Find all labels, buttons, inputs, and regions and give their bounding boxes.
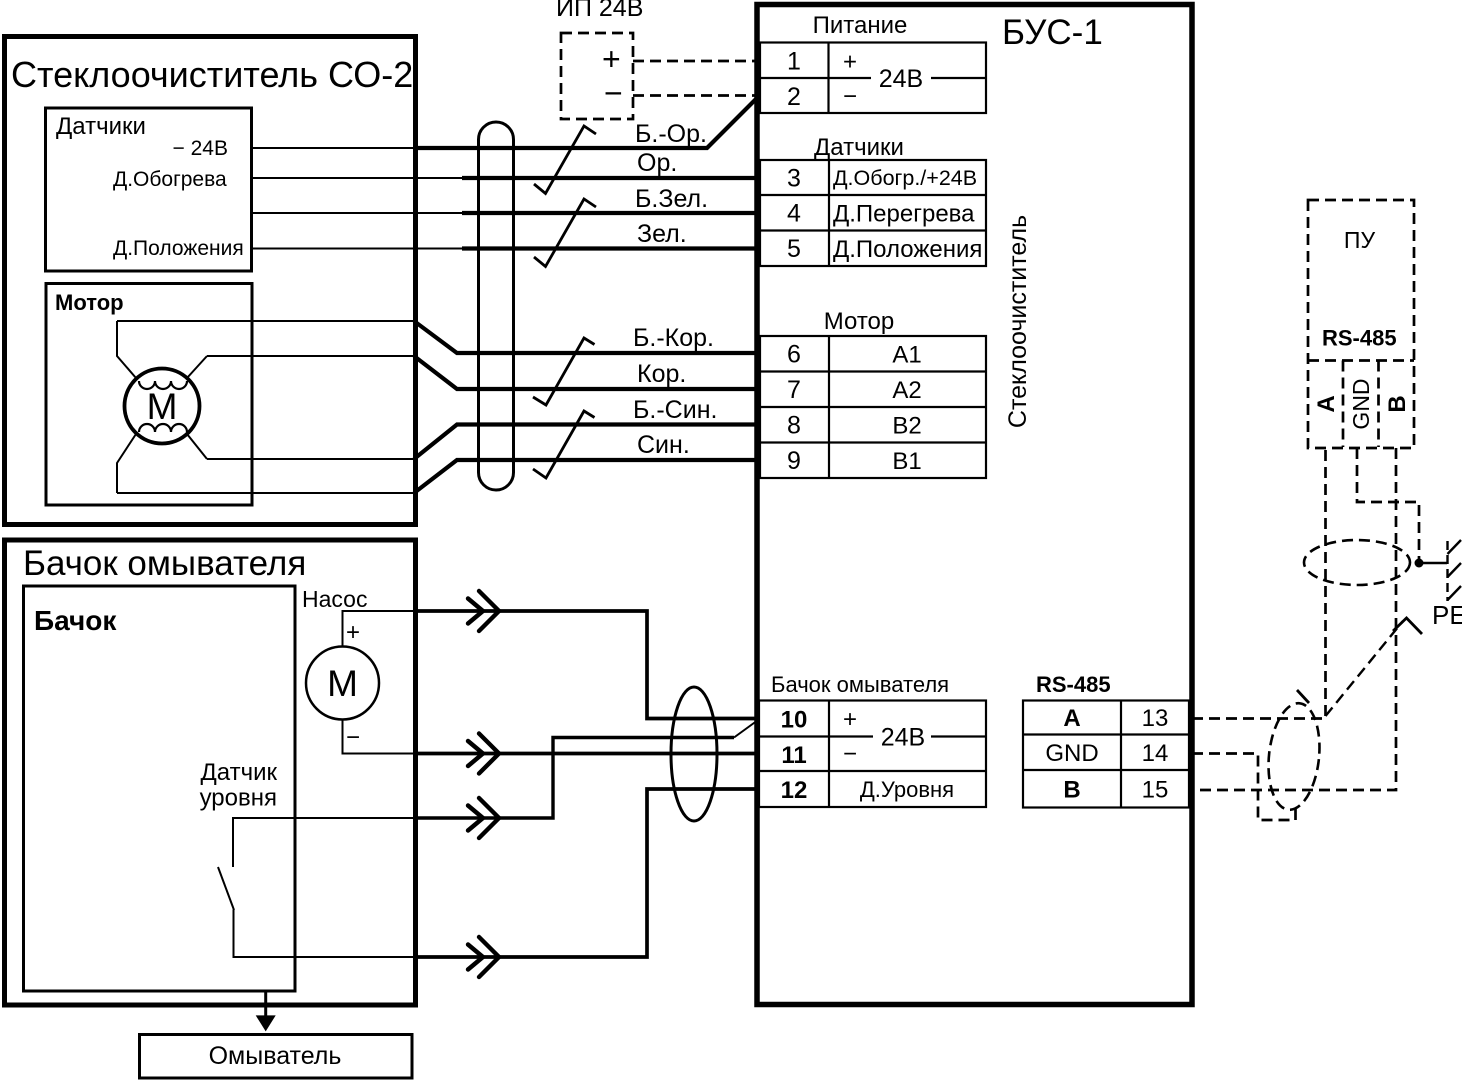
- wire A2 motor inside: [207, 355, 415, 357]
- svg-text:RS-485: RS-485: [1036, 672, 1111, 697]
- wire sensor Д.Положения inside: [252, 248, 463, 250]
- svg-text:Мотор: Мотор: [824, 308, 895, 335]
- svg-text:+: +: [602, 41, 621, 77]
- svg-text:ПУ: ПУ: [1344, 227, 1376, 253]
- svg-text:+: +: [843, 49, 857, 76]
- wire B2 motor inside: [207, 458, 415, 460]
- box Бачок омывателя: [5, 540, 416, 1005]
- svg-text:7: 7: [787, 376, 801, 404]
- svg-text:Д.Обогр./+24В: Д.Обогр./+24В: [833, 166, 977, 190]
- connector chevrons sensor bottom: [468, 945, 483, 970]
- svg-text:В: В: [1384, 395, 1411, 412]
- svg-text:В1: В1: [892, 448, 921, 475]
- RS-485 cable shield ellipse: [1304, 540, 1410, 585]
- svg-text:А: А: [1063, 705, 1080, 732]
- wire Б.-Ор. to terminal 2: [413, 98, 757, 148]
- svg-text:Бачок: Бачок: [34, 605, 117, 636]
- svg-text:24В: 24В: [881, 724, 925, 752]
- svg-text:+: +: [843, 706, 857, 733]
- shield corner mark: [1393, 618, 1422, 634]
- twisted pair mark 1: [534, 126, 596, 194]
- motor M1 top winding: [139, 381, 187, 389]
- twisted pair mark 3: [533, 338, 595, 405]
- box Омыватель: [140, 1035, 413, 1079]
- box Бачок: [24, 586, 296, 991]
- svg-text:Мотор: Мотор: [55, 290, 124, 315]
- PE chassis ground symbol: [1448, 540, 1462, 601]
- svg-text:+: +: [346, 619, 360, 646]
- svg-text:GND: GND: [1348, 378, 1374, 429]
- svg-text:1: 1: [787, 48, 801, 76]
- arrow to Омыватель: [264, 991, 267, 1017]
- cable shield capsule: [479, 122, 514, 490]
- svg-text:ИП 24В: ИП 24В: [556, 0, 643, 22]
- svg-text:М: М: [147, 386, 178, 427]
- level switch lower lead: [234, 910, 416, 958]
- washer cable shield ellipse: [671, 687, 717, 821]
- wire Б.-Кор. to terminal 6: [414, 321, 760, 353]
- svg-text:5: 5: [787, 235, 801, 263]
- wire pump plus to terminal 10: [414, 611, 760, 719]
- wire Б.-Син. to terminal 8: [414, 425, 760, 460]
- wire B ПУ to terminal 15: [1192, 448, 1396, 790]
- wire ИП minus to terminal 2: [633, 94, 758, 97]
- svg-text:2: 2: [787, 83, 801, 111]
- svg-text:6: 6: [787, 340, 801, 368]
- svg-text:24В: 24В: [879, 65, 923, 93]
- svg-text:Д.Положения: Д.Положения: [113, 237, 244, 260]
- svg-text:Д.Уровня: Д.Уровня: [860, 777, 954, 802]
- power supply ИП dashed box: [561, 33, 633, 119]
- svg-text:−: −: [604, 75, 623, 111]
- wire pump minus inside: [343, 720, 416, 754]
- terminal block Бачок омывателя: [759, 701, 986, 808]
- wire dot to PE: [1419, 562, 1447, 565]
- svg-text:14: 14: [1142, 740, 1169, 767]
- wire GND ПУ down: [1357, 448, 1419, 560]
- svg-text:Насос: Насос: [302, 586, 367, 612]
- wire Кор. to terminal 7: [414, 356, 760, 389]
- connector chevrons sensor top: [468, 806, 483, 831]
- twisted pair mark 4: [533, 411, 595, 478]
- svg-text:Омыватель: Омыватель: [209, 1042, 342, 1070]
- svg-text:−: −: [346, 724, 360, 751]
- svg-text:А1: А1: [892, 341, 921, 368]
- junction dot PE: [1415, 559, 1424, 568]
- wire level sensor bottom to terminal 12: [414, 789, 760, 957]
- wire branch to terminal 10: [734, 722, 756, 738]
- terminal row ПУ dashed: [1308, 359, 1414, 362]
- motor lead lower-left: [117, 434, 136, 493]
- svg-text:Д.Перегрева: Д.Перегрева: [833, 200, 975, 227]
- svg-text:Б.-Син.: Б.-Син.: [633, 396, 717, 424]
- wire level sensor top to +24V node: [414, 738, 734, 819]
- svg-text:Кор.: Кор.: [637, 360, 686, 388]
- svg-text:PE: PE: [1432, 600, 1462, 630]
- svg-text:Стеклоочиститель СО-2: Стеклоочиститель СО-2: [11, 54, 413, 95]
- svg-text:−: −: [843, 741, 857, 768]
- svg-text:А2: А2: [892, 377, 921, 404]
- box Датчики: [46, 108, 252, 271]
- terminal block Мотор: [760, 336, 986, 478]
- svg-text:GND: GND: [1045, 740, 1098, 767]
- wire ИП plus to terminal 1: [633, 60, 758, 63]
- terminal block RS-485: [1023, 701, 1189, 808]
- connector chevrons pump plus: [468, 591, 499, 977]
- svg-text:А: А: [1313, 395, 1340, 412]
- twisted pair mark 2: [534, 199, 596, 267]
- svg-text:Датчик: Датчик: [201, 759, 278, 786]
- wire Син. to terminal 9: [414, 460, 760, 493]
- svg-text:12: 12: [781, 777, 808, 804]
- wire pump plus inside: [343, 611, 416, 647]
- svg-text:В: В: [1063, 777, 1080, 804]
- wire pump minus to terminal 11: [414, 752, 760, 756]
- svg-text:13: 13: [1142, 705, 1169, 732]
- box ПУ dashed: [1308, 200, 1414, 448]
- svg-text:В2: В2: [892, 412, 921, 439]
- box Стеклоочиститель СО-2: [5, 37, 416, 525]
- wire sensor Д.Обогрева inside: [252, 177, 463, 179]
- svg-text:Син.: Син.: [637, 431, 690, 459]
- motor lead lower-right: [187, 434, 207, 459]
- svg-text:4: 4: [787, 199, 801, 227]
- wire A1 motor inside: [117, 320, 415, 322]
- svg-text:Стеклоочиститель: Стеклоочиститель: [1004, 215, 1032, 428]
- svg-text:уровня: уровня: [200, 785, 277, 812]
- svg-text:БУС-1: БУС-1: [1002, 13, 1103, 52]
- wire terminal 14 to shield: [1192, 754, 1296, 821]
- svg-text:8: 8: [787, 411, 801, 439]
- wire Зел. to terminal 5: [462, 246, 760, 250]
- wire sensor -24B inside: [252, 147, 416, 149]
- svg-text:Д.Обогрева: Д.Обогрева: [113, 168, 227, 191]
- svg-text:Датчики: Датчики: [56, 113, 146, 140]
- wire Б.Зел. to terminal 4: [462, 211, 760, 215]
- motor M1 circle: [125, 369, 200, 444]
- svg-text:11: 11: [781, 742, 806, 769]
- svg-text:Зел.: Зел.: [637, 220, 687, 248]
- level switch upper lead: [233, 818, 415, 867]
- svg-text:Б.-Кор.: Б.-Кор.: [633, 324, 714, 352]
- terminal block Датчики: [760, 160, 986, 266]
- washer-side shield ellipse ПУ: [1264, 701, 1325, 813]
- svg-text:М: М: [327, 663, 358, 704]
- svg-text:Датчики: Датчики: [814, 134, 904, 161]
- svg-text:− 24В: − 24В: [173, 137, 228, 160]
- svg-text:RS-485: RS-485: [1322, 326, 1397, 351]
- svg-text:Б.Зел.: Б.Зел.: [635, 185, 708, 213]
- motor lead upper-left: [117, 321, 136, 378]
- box Мотор: [46, 284, 252, 506]
- pump motor circle: [306, 647, 379, 720]
- svg-text:Бачок омывателя: Бачок омывателя: [771, 672, 949, 697]
- wire B1 motor inside: [117, 492, 415, 494]
- svg-text:Б.-Ор.: Б.-Ор.: [635, 120, 707, 148]
- motor M1 bottom winding: [139, 424, 187, 432]
- shield drain diagonal: [1326, 621, 1404, 716]
- shield tick on ellipse: [1297, 690, 1309, 703]
- wire Ор. to terminal 3: [462, 176, 760, 180]
- svg-text:9: 9: [787, 447, 801, 475]
- level switch blade: [218, 867, 234, 910]
- box БУС-1: [757, 5, 1192, 1005]
- terminal block Питание: [760, 43, 986, 114]
- svg-text:15: 15: [1142, 777, 1169, 804]
- svg-text:Бачок омывателя: Бачок омывателя: [23, 544, 306, 583]
- connector chevrons pump minus: [468, 741, 483, 766]
- motor lead upper-right: [187, 356, 207, 378]
- svg-text:Ор.: Ор.: [637, 149, 677, 177]
- svg-text:Д.Положения: Д.Положения: [833, 236, 982, 263]
- svg-text:3: 3: [787, 164, 801, 192]
- svg-text:−: −: [843, 83, 857, 110]
- svg-text:10: 10: [781, 706, 808, 733]
- wire sensor 3 inside: [252, 212, 463, 214]
- svg-text:Питание: Питание: [813, 12, 908, 39]
- wire A ПУ to terminal 13: [1192, 448, 1326, 719]
